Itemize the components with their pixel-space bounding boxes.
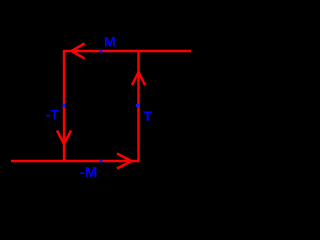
node point right vertical	[136, 104, 139, 107]
arrowhead down (left line)	[57, 131, 71, 145]
wire right vertical (T branch)	[137, 51, 139, 161]
arrowhead right (bottom line)	[117, 154, 132, 169]
node point bottom (left of -M)	[100, 160, 103, 163]
wire top horizontal (M branch)	[64, 50, 191, 52]
svg-text:-T: -T	[46, 106, 60, 122]
wire bottom horizontal (-M branch)	[11, 160, 140, 162]
wire left vertical (-T branch)	[63, 50, 65, 161]
svg-text:-M: -M	[80, 164, 98, 181]
arrowhead up (right line)	[132, 72, 145, 85]
node point left vertical	[63, 104, 66, 107]
svg-text:T: T	[143, 108, 152, 124]
arrowhead left (top line)	[72, 44, 85, 59]
svg-text:M: M	[104, 34, 116, 50]
node point top (under M)	[100, 50, 103, 53]
